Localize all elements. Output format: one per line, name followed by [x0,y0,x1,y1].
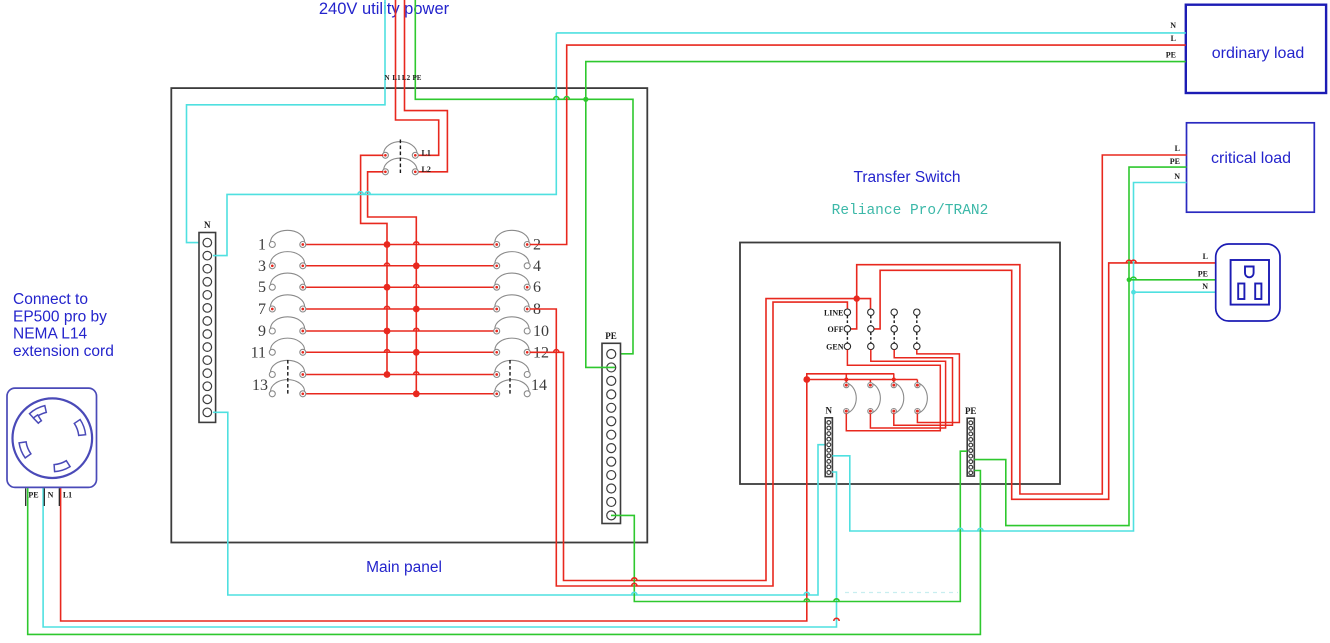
wire gen circuit 1 link [846,350,940,431]
bus bar main panel PE [602,331,621,524]
hop row12 over breaker8 drop [554,350,559,353]
hop red621 over plugN riser [834,618,839,621]
switch transfer arc 2 [868,383,881,414]
hop row1 over busA [384,263,389,266]
svg-text:5: 5 [258,279,266,296]
hop cyan595 over gen riser [804,592,809,595]
junction bus B row 4 [413,306,420,313]
svg-text:N: N [1202,282,1208,291]
selector column 4 [914,309,920,350]
breaker 12 [494,338,531,355]
transfer switch box [740,243,1060,485]
hop redL over cyan riser [1131,260,1136,263]
svg-text:L: L [1203,252,1208,261]
hop row2 over busB [414,285,419,288]
main breaker tie bar (dashed) [399,140,401,174]
wire gen circuit 4 link [917,350,960,423]
wire main breaker L1 out to bus A [361,155,387,374]
hop red580 over PE drop [632,578,637,581]
plug pin tick PE [25,488,27,506]
wire main PE to transfer PE [611,451,967,601]
hop green601 over gen riser [804,599,809,602]
breaker 2 [494,230,531,247]
junction arc1 rail cross [844,378,848,382]
wire arc4 top stub [916,380,918,384]
hop green99 over cyan riser [554,97,559,100]
junction transfer line junction [854,295,860,301]
svg-text:N: N [826,406,833,416]
svg-text:L: L [1171,34,1176,43]
main breaker lower pole [382,158,418,175]
hop cyan194 over red b [365,192,370,195]
wire gen rail lower [807,379,918,381]
hop greenPE over cyan riser [1131,277,1136,280]
svg-text:13: 13 [252,377,268,394]
junction bus B row 2 [413,262,420,269]
breaker 14 lower [494,380,531,397]
junction bus B row 8 [413,390,420,397]
wire utility N (cyan) down-left-down to N bus c1 [187,0,386,243]
wire junction to col1 OFF [851,299,857,329]
switch transfer arc 4 [915,383,928,414]
junction receptacle N junction [1131,290,1136,295]
wire row 7-8 branch [305,308,494,310]
wire main breaker L2 out to bus B [368,172,417,394]
svg-text:LINE: LINE [824,309,844,318]
ordinary load box [1186,5,1326,93]
wire arc3 top stub [893,374,895,383]
svg-text:3: 3 [258,258,266,275]
hop row6 over busB [414,372,419,375]
svg-text:Transfer Switch: Transfer Switch [853,169,960,186]
wire plug PE to transfer PE [28,471,981,635]
wire col2 OFF loop to receptacle L [874,263,1216,499]
svg-text:PE: PE [965,406,977,416]
svg-text:Reliance Pro/TRAN2: Reliance Pro/TRAN2 [832,203,989,219]
svg-text:4: 4 [533,258,541,275]
receptacle (outlet) symbol [1216,244,1280,321]
wire row 9-10 branch [305,330,494,332]
bus bar transfer PE [965,406,977,476]
breaker 13 lower [269,380,306,397]
hop redL over green riser [1126,260,1131,263]
svg-text:L: L [1175,144,1180,153]
wire N bus c2 to ordinary load N riser [213,33,556,256]
svg-text:PE: PE [605,331,617,341]
svg-text:GEN: GEN [826,343,844,352]
switch transfer arc 1 [844,383,857,414]
breaker 14 tie bar [509,360,511,396]
bus bar main panel N [199,220,216,422]
wire row 11-12 branch [305,351,494,353]
svg-text:7: 7 [258,301,266,318]
wire arc2 top stub [869,380,871,384]
wire row 3-4 branch [305,265,494,267]
wire utility L1 (red) to main breaker L1 [396,0,439,155]
svg-text:PE: PE [413,74,422,82]
svg-text:ordinary load: ordinary load [1212,45,1305,62]
svg-text:N: N [204,220,211,230]
wire row 1-2 branch [305,244,494,246]
wire row 5-6 branch [305,286,494,288]
svg-text:PE: PE [1198,270,1208,279]
wire arc1 top stub [845,374,847,383]
svg-text:L1: L1 [63,491,72,500]
breaker 13 upper [269,360,306,377]
wire gen circuit 2 link [870,350,945,428]
wire N bus c14 down to transfer N bus [213,412,825,595]
main breaker upper pole [382,142,418,159]
wire ordinary load N [556,32,1186,34]
svg-text:9: 9 [258,323,266,340]
breaker 6 [494,273,531,290]
plug pin tick N [43,488,45,506]
svg-text:11: 11 [251,344,266,361]
breaker 9 [258,317,306,340]
wire plug L1 riser to arc tops [61,374,895,621]
wire ordinary load PE riser [586,62,1186,368]
junction bus A row 7 [384,371,391,378]
wire breaker 8 feed to transfer (LINE col1) [530,302,848,586]
bus bar transfer N [825,406,832,477]
breaker 5 [258,273,306,296]
hop cyan531 over green a [958,528,963,531]
wire gen circuit 3 link [894,350,953,426]
hop green601 over plugN riser [834,599,839,602]
hop cyan531 over green b [978,528,983,531]
svg-text:critical load: critical load [1211,150,1291,167]
hop row5 over busA [384,350,389,353]
faint dashed service line [845,592,958,594]
hop row3 over busA [384,306,389,309]
junction receptacle PE junction [1127,277,1132,282]
svg-text:L2: L2 [422,165,431,174]
junction bus A row 5 [384,328,391,335]
wire transfer N to receptacle/critical N [832,183,1186,532]
svg-text:Main panel: Main panel [366,559,442,576]
svg-text:PE: PE [1170,157,1180,166]
hop cyan194 over red a [358,192,363,195]
breaker 14 upper [494,360,531,377]
svg-text:L2: L2 [402,74,411,82]
critical load box [1187,123,1315,212]
junction gen junction [803,376,810,383]
svg-text:L1: L1 [392,74,401,82]
main panel box [171,88,647,542]
wire utility PE (green) to PE bus c1 [415,0,633,354]
plug pin tick L1 [58,488,60,506]
breaker 13 tie bar [287,360,289,396]
selector column 3 [891,309,897,350]
wire row 13 lower branch [305,393,494,395]
svg-text:PE: PE [28,491,38,500]
breaker 11 [251,338,306,361]
svg-text:14: 14 [531,377,547,394]
wire plug N to transfer N [43,472,836,627]
svg-text:1: 1 [258,237,266,254]
wire transfer PE to receptacle/critical PE [974,167,1186,525]
wire receptacle PE branch [1129,279,1216,281]
hop green99 over red riser [564,97,569,100]
svg-text:PE: PE [1166,51,1176,60]
svg-text:OFF: OFF [828,325,844,334]
svg-text:L1: L1 [422,149,431,158]
wire ordinary load L from breaker 2 [530,45,1186,244]
junction arc3 rail cross [892,378,896,382]
hop cyan595 over PE drop [632,592,637,595]
breaker 3 [258,252,306,275]
junction bus B row 6 [413,349,420,356]
selector column 1 [844,309,850,350]
wire utility L2 (red) to main breaker L2 [405,0,448,172]
breaker 10 [494,317,531,334]
breaker 8 [494,295,531,312]
switch transfer arc 3 [891,383,904,414]
breaker 1 [258,230,306,253]
breaker 4 [494,252,531,269]
junction bus A row 1 [384,241,391,248]
svg-text:N: N [1170,21,1176,30]
NEMA L14 plug symbol [7,388,97,487]
wire receptacle N branch [1134,291,1216,293]
hop row0 over busB [414,242,419,245]
selector column 2 [868,309,874,350]
svg-text:6: 6 [533,279,541,296]
wire row 13 upper branch [305,374,494,376]
hop row4 over busB [414,328,419,331]
breaker 7 [258,295,306,318]
svg-text:N: N [48,491,54,500]
junction utility PE / ordinary PE junction [583,97,588,102]
svg-text:N: N [1174,172,1180,181]
junction bus A row 3 [384,284,391,291]
svg-text:N: N [384,74,389,82]
svg-text:10: 10 [533,323,549,340]
wire breaker 12 feed to transfer (junction) [530,299,871,581]
hop red586 over PE drop [632,583,637,586]
wire junction loop to critical load L [857,155,1187,494]
